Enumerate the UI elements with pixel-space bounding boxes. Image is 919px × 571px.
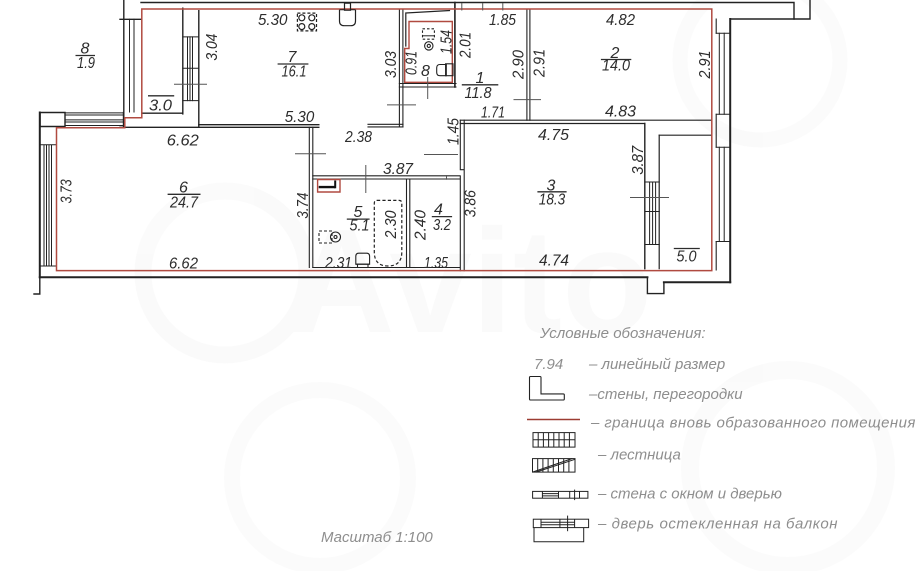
svg-text:18.3: 18.3 [539, 192, 566, 209]
wall: right inner wall segments [715, 19, 717, 270]
fixture: bathtub [374, 200, 402, 266]
red boundary duct box [318, 180, 340, 193]
svg-text:5.1: 5.1 [350, 218, 370, 235]
balcony 5.0 label [674, 248, 700, 250]
fixture: kitchen sink [340, 3, 356, 26]
window: right window glass [719, 33, 724, 241]
wall: room1/room2 divider [527, 9, 530, 120]
dimension ticks [174, 3, 669, 198]
legend wall with window and door [533, 490, 588, 501]
wall: room3 top wall [460, 120, 712, 123]
wall: divider room6/room5 [309, 127, 313, 267]
wall: left exterior wall [39, 113, 41, 278]
svg-text:4.74: 4.74 [539, 253, 569, 270]
wall: balcony 3.0 bottom [142, 112, 183, 114]
svg-text:Условные обозначения:: Условные обозначения: [539, 325, 706, 342]
svg-text:11.8: 11.8 [465, 85, 492, 102]
window: room3/balcony5 glass [650, 182, 656, 245]
svg-text:Масштаб 1:100: Масштаб 1:100 [321, 529, 433, 546]
fixture: sink in bath5 [319, 231, 341, 243]
svg-text:2.01: 2.01 [458, 32, 475, 59]
svg-text:5.30: 5.30 [285, 109, 315, 126]
svg-text:3.86: 3.86 [463, 190, 480, 217]
wall: bottom exterior [40, 276, 648, 278]
window: right window ticks [716, 33, 730, 241]
window: balcony 8 band [65, 113, 124, 126]
svg-text:– граница вновь образованного: – граница вновь образованного помещения [590, 415, 916, 432]
svg-text:3.87: 3.87 [630, 145, 647, 175]
svg-text:1.9: 1.9 [77, 55, 95, 72]
svg-text:– стена с окном и дверью: – стена с окном и дверью [597, 486, 782, 503]
wall: room 7 left wall [198, 11, 200, 127]
red boundary of apartment [57, 9, 712, 271]
wire: building outline top-right step [731, 0, 810, 19]
wall: bath5 right wall [407, 179, 410, 268]
fixture: toilet in bath8 [437, 64, 453, 76]
wall: bath5 top wall [313, 176, 460, 179]
window: balcony 3.0 window ticks [183, 37, 199, 101]
svg-text:2.38: 2.38 [344, 129, 372, 146]
svg-text:8: 8 [421, 63, 430, 80]
svg-text:2.91: 2.91 [532, 49, 549, 78]
wall: room 6 top wall [120, 126, 319, 128]
svg-text:1.45: 1.45 [446, 118, 463, 145]
legend red boundary [527, 419, 580, 421]
svg-text:4.82: 4.82 [606, 12, 635, 29]
window: room3/balcony5 ticks [646, 182, 660, 245]
fixture: washer in bath8 [423, 29, 435, 50]
wall: bath8 right wall [454, 3, 456, 88]
svg-text:1.85: 1.85 [489, 12, 516, 29]
svg-text:3.2: 3.2 [433, 217, 451, 234]
room labels [76, 41, 700, 266]
wall: corridor segment wall [368, 124, 403, 127]
wall: room3 right wall [644, 124, 646, 269]
fixture: toilet in bath5 [356, 253, 370, 267]
svg-text:4.83: 4.83 [605, 104, 636, 121]
svg-text:5.30: 5.30 [258, 12, 288, 29]
duct L symbol [319, 181, 336, 189]
dimension texts rotated [59, 30, 715, 241]
wire: building outline top [141, 3, 794, 20]
balcony 3.0 label [148, 95, 174, 97]
wall: balcony5 top [659, 134, 712, 136]
svg-text:3.73: 3.73 [59, 179, 76, 203]
door: bath8 leaf [406, 11, 450, 47]
svg-text:16.1: 16.1 [282, 64, 307, 81]
window: room 6 left window glass [44, 145, 52, 266]
svg-text:4.75: 4.75 [538, 127, 569, 144]
svg-text:2.40: 2.40 [413, 210, 430, 241]
svg-text:3.04: 3.04 [204, 34, 221, 61]
window: balcony 3.0 window glass [188, 37, 193, 101]
svg-text:2.30: 2.30 [383, 210, 400, 239]
svg-text:–стены, перегородки: –стены, перегородки [588, 386, 743, 403]
svg-text:4: 4 [434, 202, 443, 219]
window: room 6 left window ticks [40, 145, 57, 266]
svg-text:6.62: 6.62 [167, 133, 199, 150]
svg-text:7.94: 7.94 [534, 356, 563, 373]
svg-text:5.0: 5.0 [677, 249, 697, 266]
wall: balcony5 inner left [658, 135, 660, 269]
wall: room3 left wall [460, 120, 464, 271]
legend stairs [533, 433, 576, 473]
red boundary bath 8 [405, 22, 453, 83]
wall: right exterior wall [729, 19, 731, 282]
legend glazed balcony door [533, 516, 588, 542]
svg-text:– линейный размер: – линейный размер [588, 356, 725, 373]
svg-text:1.71: 1.71 [481, 105, 505, 122]
wall: room 7 bottom wall [199, 124, 319, 126]
svg-text:3.03: 3.03 [383, 51, 400, 78]
wall: bottom right [664, 281, 730, 283]
svg-text:2.90: 2.90 [511, 50, 528, 80]
wall: tick at left wall top [120, 18, 142, 20]
wall: bath5/room4 bottom line [313, 267, 460, 269]
svg-text:– лестница: – лестница [597, 447, 681, 464]
wall: room7 right wall [399, 9, 403, 127]
svg-text:14.0: 14.0 [602, 58, 630, 75]
svg-text:– дверь остекленная на балкон: – дверь остекленная на балкон [597, 516, 838, 533]
svg-text:6.62: 6.62 [169, 256, 198, 273]
wall: balcony 3.0 right wall [182, 8, 184, 114]
wall: jamb right of band [123, 113, 125, 128]
dimension texts horizontal [167, 12, 636, 273]
wall: bath8 bottom wall [399, 84, 456, 88]
svg-text:0.91: 0.91 [404, 51, 421, 75]
fixture: stove [297, 13, 316, 31]
svg-text:1.54: 1.54 [439, 30, 456, 54]
wall: left upper exterior wall [123, 0, 125, 118]
window: glass in left upper wall [130, 19, 135, 112]
svg-text:1.35: 1.35 [424, 255, 448, 272]
legend [321, 325, 916, 546]
svg-text:2.91: 2.91 [697, 51, 714, 80]
wall: balcony 8 corner box [40, 113, 65, 127]
wall: bottom-left step [34, 277, 40, 294]
svg-text:3.0: 3.0 [149, 98, 172, 115]
svg-text:24.7: 24.7 [169, 195, 199, 212]
svg-text:3.87: 3.87 [383, 161, 414, 178]
legend walls symbol [530, 377, 565, 401]
wall: bottom notch [647, 277, 664, 293]
svg-text:2.31: 2.31 [324, 255, 352, 272]
svg-text:3.74: 3.74 [295, 193, 312, 219]
